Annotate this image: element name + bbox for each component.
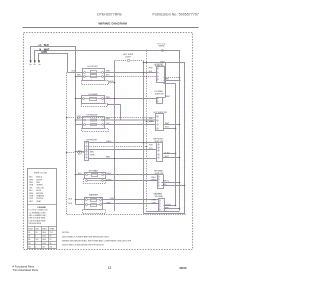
wire warmer element [88, 199, 100, 201]
svg-text:GREEN: GREEN [36, 185, 43, 187]
svg-text:Y/BLK: Y/BLK [106, 173, 112, 175]
terminal pin switch 3 2 [157, 120, 158, 121]
svg-text:Y/RED: Y/RED [106, 179, 112, 181]
junction dot element LH bridge (dual) [75, 119, 77, 121]
junction dot element LH FRONT 2 [75, 76, 77, 78]
svg-text:WIRING SHOWN WITH ALL SWITCHES: WIRING SHOWN WITH ALL SWITCHES AND COMPO… [62, 239, 132, 242]
terminal pin warmer element 4 [100, 204, 102, 206]
junction dot switch RH REAR [179, 182, 181, 184]
wire element LH FRONT 3 [68, 72, 84, 74]
svg-text:LIGHT: LIGHT [125, 56, 132, 58]
terminal pin element LH bridge (dual) [84, 119, 86, 121]
svg-text:GND = CHASSIS GND: GND = CHASSIS GND [29, 214, 47, 217]
wire legend box [28, 204, 57, 206]
wire switch 3 [164, 124, 180, 126]
wires LH FRONT to switch [68, 73, 157, 77]
wire element RH REAR 5 [104, 180, 158, 182]
box warmer element [85, 198, 103, 210]
bottom rail 2 [147, 211, 180, 213]
wire element LH FRONT 2 [86, 76, 102, 78]
box element LH REAR [82, 96, 105, 104]
box legend box [28, 169, 57, 249]
svg-text:RF: RF [28, 239, 30, 241]
wire oven light switch [163, 97, 166, 99]
junction dot element LH FRONT [114, 82, 116, 84]
node N junction dot [146, 50, 148, 52]
junction dot 3 [146, 146, 148, 148]
box element LH bridge (dual) [83, 117, 105, 129]
plug terminal arrow [30, 60, 32, 63]
svg-text:BLACK: BLACK [36, 176, 43, 179]
junction dot element LH REAR 3 [143, 119, 145, 121]
terminal pin switch 3 [157, 116, 158, 117]
terminal pin element RH REAR 3 [86, 180, 88, 182]
wire legend box 10 [48, 227, 50, 250]
dashed wire element LH FRONT 2 [115, 76, 157, 78]
box element RH FRONT pin block [85, 142, 89, 161]
svg-text:ORN: ORN [106, 202, 111, 204]
wire element RH FRONT pin block 4 [76, 151, 85, 153]
wire element LH REAR 2 [76, 98, 83, 100]
dashed wire element RH FRONT pin block 2 [67, 152, 85, 154]
svg-text:SURF SW: SURF SW [155, 93, 164, 95]
terminal pin element RH FRONT pin block 5 [86, 154, 87, 155]
terminal pin element RH REAR 4 [102, 180, 104, 182]
svg-text:RED: RED [106, 157, 111, 159]
terminal pin oven light switch 2 [157, 101, 158, 102]
svg-text:Y/RED: Y/RED [151, 179, 157, 181]
svg-text:RED: RED [106, 97, 111, 99]
svg-text:WHT/2: WHT/2 [163, 181, 169, 183]
legend table [28, 227, 57, 250]
svg-text:RED: RED [106, 118, 111, 120]
svg-text:LINE VOLTAGE WIRE: LINE VOLTAGE WIRE [29, 217, 47, 220]
wire element RH FRONT pin block [89, 142, 157, 144]
terminal pin switch RH REAR [158, 176, 159, 177]
wire N from terminal across top to right bus [35, 51, 180, 211]
terminal pin element RH FRONT pin block [86, 142, 87, 143]
junction dot warmer switch [175, 205, 177, 207]
svg-text:# Functional Parts: # Functional Parts [13, 265, 35, 269]
svg-text:RED: RED [77, 75, 82, 77]
junction dot [143, 62, 145, 64]
junction dot 2 [143, 72, 145, 74]
terminal pin element RH FRONT pin block 4 [86, 151, 87, 152]
svg-text:GROUND WIRE: GROUND WIRE [29, 223, 42, 225]
wire legend box 8 [34, 227, 36, 250]
right bus 3 with bottom rail [144, 63, 185, 214]
svg-text:LIGHT SWITCH SHOWN IN OPEN POS: LIGHT SWITCH SHOWN IN OPEN POSITION. [62, 245, 104, 247]
hot surface light [115, 54, 144, 62]
svg-text:GRN: GRN [90, 154, 95, 156]
svg-text:Publication No. 5995577797: Publication No. 5995577797 [153, 13, 200, 17]
svg-text:GRAY: GRAY [36, 200, 42, 203]
terminal pin switch 3 3 [157, 124, 158, 125]
hot surface lamp left vertical [114, 61, 116, 212]
svg-text:LOW VOLTAGE WIRE: LOW VOLTAGE WIRE [29, 219, 47, 222]
wire warmer element 6 [102, 203, 159, 205]
box element LH FRONT [83, 69, 105, 81]
junction dot switch RH FRONT 2 [179, 157, 181, 159]
svg-text:Y/BLK: Y/BLK [106, 141, 112, 143]
svg-text:WIRING DIAGRAM: WIRING DIAGRAM [98, 21, 127, 25]
plug terminal arrow 3 [38, 60, 40, 63]
svg-text:WZ: WZ [28, 246, 31, 248]
right bus 3 via oven light switch loop [165, 63, 167, 98]
svg-text:ORN: ORN [152, 199, 157, 201]
junction dot element LH REAR 2 [114, 98, 116, 100]
junction dot 2 [66, 117, 68, 119]
svg-text:T = TERMINAL CONN: T = TERMINAL CONN [29, 211, 47, 214]
wire element LH FRONT [86, 72, 102, 74]
svg-text:RH REAR: RH REAR [89, 169, 99, 172]
wire switch RH FRONT [163, 153, 176, 155]
dashed wire element RH FRONT pin block [89, 146, 147, 148]
svg-text:RED: RED [106, 71, 111, 73]
terminal pin warmer switch 2 [159, 203, 160, 204]
terminal pin switch RH REAR 3 [158, 182, 159, 183]
junction dot warmer switch 2 [179, 208, 181, 210]
wire L1 from terminal to L1 bus down left column [31, 47, 76, 205]
svg-text:(WHT): (WHT) [159, 46, 165, 48]
svg-text:YEL: YEL [29, 187, 32, 189]
wire legend box 3 [28, 230, 57, 232]
junction dot switch LH FRONT [179, 77, 181, 79]
wire warmer switch 2 [164, 208, 180, 210]
terminal pin warmer switch [159, 200, 160, 201]
box warmer switch [159, 199, 165, 212]
terminal pin warmer switch 3 [159, 206, 160, 207]
dashed enclosure element LH bridge (dual) [82, 129, 109, 132]
terminal pin element LH bridge (dual) 4 [102, 124, 104, 126]
box element RH REAR [85, 173, 106, 179]
junction dot 8 [146, 203, 148, 205]
terminal pin switch LH FRONT 4 [157, 79, 158, 80]
junction dot 5 [146, 180, 148, 182]
terminal pin switch RH FRONT 4 [158, 154, 159, 155]
terminal pin element RH FRONT pin block 6 [86, 157, 87, 158]
terminal pin element LH FRONT [102, 72, 104, 74]
wire element RH REAR 4 [104, 174, 158, 176]
dashed wire element LH FRONT [109, 82, 115, 84]
wire 3 [39, 64, 41, 66]
box element LH FRONT 2 [91, 71, 97, 74]
svg-text:ELEM: ELEM [28, 228, 33, 230]
svg-text:3600: 3600 [42, 239, 46, 241]
svg-text:ORN/2: ORN/2 [165, 204, 171, 206]
ground dash branch LH REAR [67, 117, 156, 119]
hot surface indicator lamp DS1 [127, 59, 130, 62]
junction dot 6 [143, 199, 145, 201]
wire warmer element 4 [76, 204, 86, 206]
terminal pin element LH bridge (dual) 2 [102, 119, 104, 121]
box element LH bridge (dual) 2 [91, 119, 97, 121]
wire warmer element 2 [88, 204, 100, 206]
svg-text:100: 100 [42, 246, 45, 248]
svg-text:BLK/2: BLK/2 [165, 152, 170, 154]
terminal pin switch LH FRONT 3 [157, 76, 158, 77]
svg-text:12/9: 12/9 [35, 239, 38, 241]
svg-text:6: 6 [35, 236, 36, 238]
dashed enclosure warmer element [83, 210, 106, 214]
wire element RH REAR 2 [88, 180, 103, 182]
link vertical node [107, 105, 121, 121]
wire element LH bridge (dual) 6 [104, 124, 156, 126]
junction dot element RH FRONT pin block 3 [114, 158, 116, 160]
junction dot switch RH FRONT [175, 153, 177, 155]
svg-text:BLK: BLK [44, 44, 49, 47]
junction dot warmer element [75, 199, 77, 201]
header rule [23, 27, 199, 29]
wire 2 [34, 64, 36, 66]
dashed wire 2 [131, 60, 144, 62]
neutral mid vertical [146, 51, 148, 212]
wire switch RH REAR 2 [162, 185, 185, 187]
dashed wire element LH REAR [147, 121, 156, 123]
terminal pin switch LH FRONT [157, 68, 158, 69]
wire 4 [146, 50, 148, 51]
wire GRN/L2 from terminal [39, 54, 68, 73]
svg-text:CPEH3077RFB: CPEH3077RFB [97, 13, 122, 17]
box element LH bridge (dual) 3 [91, 124, 97, 126]
terminal pin element RH REAR 2 [102, 174, 104, 176]
svg-text:ORN: ORN [110, 198, 115, 200]
terminal pin element RH REAR [86, 174, 88, 176]
svg-text:48: 48 [50, 243, 52, 245]
ground dashed bus [67, 73, 187, 215]
dashed enclosure [82, 81, 109, 85]
dashed enclosure element LH REAR [82, 104, 108, 107]
box switch RH REAR [158, 175, 164, 189]
wire element LH bridge (dual) [86, 119, 102, 121]
junction dot element LH REAR [75, 98, 77, 100]
svg-text:*Non-Illustrated Parts: *Non-Illustrated Parts [13, 268, 39, 272]
power terminals [30, 60, 41, 63]
svg-text:YELLOW: YELLOW [36, 187, 44, 189]
svg-text:ORANGE: ORANGE [36, 195, 44, 198]
wires LH bridge [76, 120, 156, 125]
svg-text:48: 48 [50, 236, 52, 238]
dashed wire switch LH FRONT [164, 77, 180, 79]
svg-text:6: 6 [35, 246, 36, 248]
wire legend box 2 [28, 226, 57, 228]
wire element LH bridge (dual) 2 [86, 124, 102, 126]
element row 2 [84, 76, 86, 78]
wire element RH REAR 3 [76, 174, 86, 176]
svg-text:NOTES:: NOTES: [62, 232, 70, 234]
svg-text:6: 6 [35, 243, 36, 245]
box switch 3 [156, 114, 164, 131]
svg-text:LEGEND: LEGEND [38, 207, 47, 209]
dashed wire [115, 60, 128, 62]
plug terminal arrow 2 [34, 60, 36, 63]
wire element LH REAR [85, 98, 102, 100]
svg-text:16: 16 [50, 239, 52, 241]
power wire labels [39, 44, 50, 54]
wire switch LH FRONT [164, 80, 181, 82]
wire switch RH REAR [162, 182, 180, 184]
wire switch LH FRONT 2 [164, 83, 176, 85]
box warmer element 3 [91, 204, 97, 207]
svg-text:08/15: 08/15 [180, 266, 187, 270]
box element LH REAR 2 [90, 98, 97, 101]
wire element LH bridge (dual) 5 [104, 119, 156, 121]
wire element LH REAR 3 [104, 98, 157, 100]
terminal pin warmer element [86, 199, 88, 201]
dashed enclosure element RH REAR [84, 179, 106, 184]
terminal pin switch RH FRONT 5 [158, 157, 159, 158]
terminal pin warmer switch 4 [159, 209, 160, 210]
svg-text:P = PLUG CONNECTOR: P = PLUG CONNECTOR [29, 210, 49, 212]
wire warmer switch [164, 205, 176, 207]
svg-text:BROWN: BROWN [36, 193, 43, 195]
wire element LH FRONT 6 [104, 76, 115, 78]
wire element RH REAR [88, 174, 103, 176]
svg-text:RED: RED [90, 152, 95, 154]
svg-text:LF: LF [28, 232, 30, 234]
right bus 1 [175, 84, 177, 206]
svg-text:GRN: GRN [149, 121, 154, 123]
wire legend box 4 [28, 234, 57, 236]
svg-text:9/6: 9/6 [35, 232, 37, 234]
svg-text:WIRE COLOR: WIRE COLOR [34, 173, 47, 175]
terminal pin element LH FRONT 2 [102, 76, 104, 78]
junction dot switch 3 [179, 124, 181, 126]
svg-text:OHMS: OHMS [50, 228, 55, 230]
svg-text:GRN: GRN [109, 81, 114, 83]
box oven light switch [157, 98, 163, 104]
junction dot 4 [143, 98, 145, 100]
dashed page frame [24, 33, 193, 250]
terminal pin switch RH REAR 2 [158, 179, 159, 180]
wire element LH FRONT 4 [76, 76, 84, 78]
junction dot element RH FRONT pin block [75, 151, 77, 153]
terminal pin switch RH FRONT 2 [158, 147, 159, 148]
terminal pin switch RH REAR 4 [158, 185, 159, 186]
terminal pin oven light switch [157, 98, 158, 99]
wire legend box 9 [41, 227, 43, 250]
wire warmer element 5 [102, 199, 159, 201]
svg-text:PURPLE: PURPLE [36, 198, 44, 200]
box switch RH FRONT [157, 143, 163, 162]
svg-text:WARMER: WARMER [89, 193, 99, 196]
wire warmer element 3 [76, 199, 86, 201]
svg-text:YEL: YEL [106, 123, 110, 125]
svg-text:144: 144 [50, 246, 53, 248]
svg-text:3000: 3000 [42, 232, 46, 234]
wire element LH FRONT 5 [104, 72, 157, 74]
junction dot 7 [114, 199, 116, 201]
svg-text:1200: 1200 [42, 236, 46, 238]
box element LH FRONT 3 [91, 75, 97, 78]
box switch LH FRONT [157, 67, 165, 83]
TO TOD connector [157, 43, 166, 51]
junction dot element LH REAR 4 [146, 121, 148, 123]
wire switch RH FRONT 2 [163, 157, 180, 159]
junction dot switch 3 2 [175, 128, 177, 130]
wire element LH bridge (dual) 4 [76, 124, 84, 126]
terminal pin switch RH FRONT 3 [158, 150, 159, 151]
terminal pin switch LH FRONT 2 [157, 72, 158, 73]
junction dot 3 [146, 76, 148, 78]
wire switch 3 2 [164, 128, 176, 130]
svg-text:DISCONNECT POWER BEFORE SERVIC: DISCONNECT POWER BEFORE SERVICING UNIT. [62, 236, 110, 238]
terminal pin element LH bridge (dual) 3 [84, 124, 86, 126]
junction dot switch RH REAR 2 [184, 185, 186, 187]
svg-text:13: 13 [108, 266, 112, 270]
box element RH REAR 2 [92, 174, 98, 177]
wire element RH FRONT pin block 3 [89, 158, 157, 160]
junction dot element RH FRONT pin block 2 [66, 152, 68, 154]
dashed mid vertical [143, 61, 145, 214]
wire element RH FRONT pin block 2 [89, 149, 157, 151]
terminal pin switch 3 4 [157, 128, 158, 129]
TOD plug connector P1 [161, 49, 163, 51]
svg-text:SIZE: SIZE [35, 228, 39, 230]
wire legend box 6 [28, 241, 57, 243]
svg-text:ORN: ORN [152, 202, 157, 204]
terminal pin switch RH FRONT [158, 144, 159, 145]
wire legend box 5 [28, 237, 57, 239]
box warmer element 2 [91, 199, 97, 202]
element row 1 [84, 72, 86, 74]
terminal pin warmer element 3 [86, 204, 88, 206]
svg-text:LH FRONT: LH FRONT [88, 66, 99, 68]
terminal pin element LH REAR [83, 98, 85, 100]
terminal pin element RH FRONT pin block 3 [86, 149, 87, 150]
junction dot element RH REAR [75, 174, 77, 176]
svg-text:19.2: 19.2 [50, 232, 53, 234]
wire element LH bridge (dual) 3 [76, 119, 84, 121]
wire legend box 7 [28, 244, 57, 246]
junction dot 2 [143, 142, 145, 144]
wire [30, 64, 32, 66]
terminal pin warmer element 2 [100, 199, 102, 201]
svg-text:WHITE: WHITE [36, 179, 42, 181]
terminal pin element RH FRONT pin block 2 [86, 146, 87, 147]
svg-text:1200: 1200 [42, 243, 46, 245]
junction dot 4 [143, 174, 145, 176]
svg-text:GRN: GRN [41, 51, 47, 54]
terminal pin element LH REAR 2 [102, 98, 104, 100]
junction dot 2 [146, 62, 148, 64]
svg-text:SW (SIM): SW (SIM) [155, 196, 164, 198]
